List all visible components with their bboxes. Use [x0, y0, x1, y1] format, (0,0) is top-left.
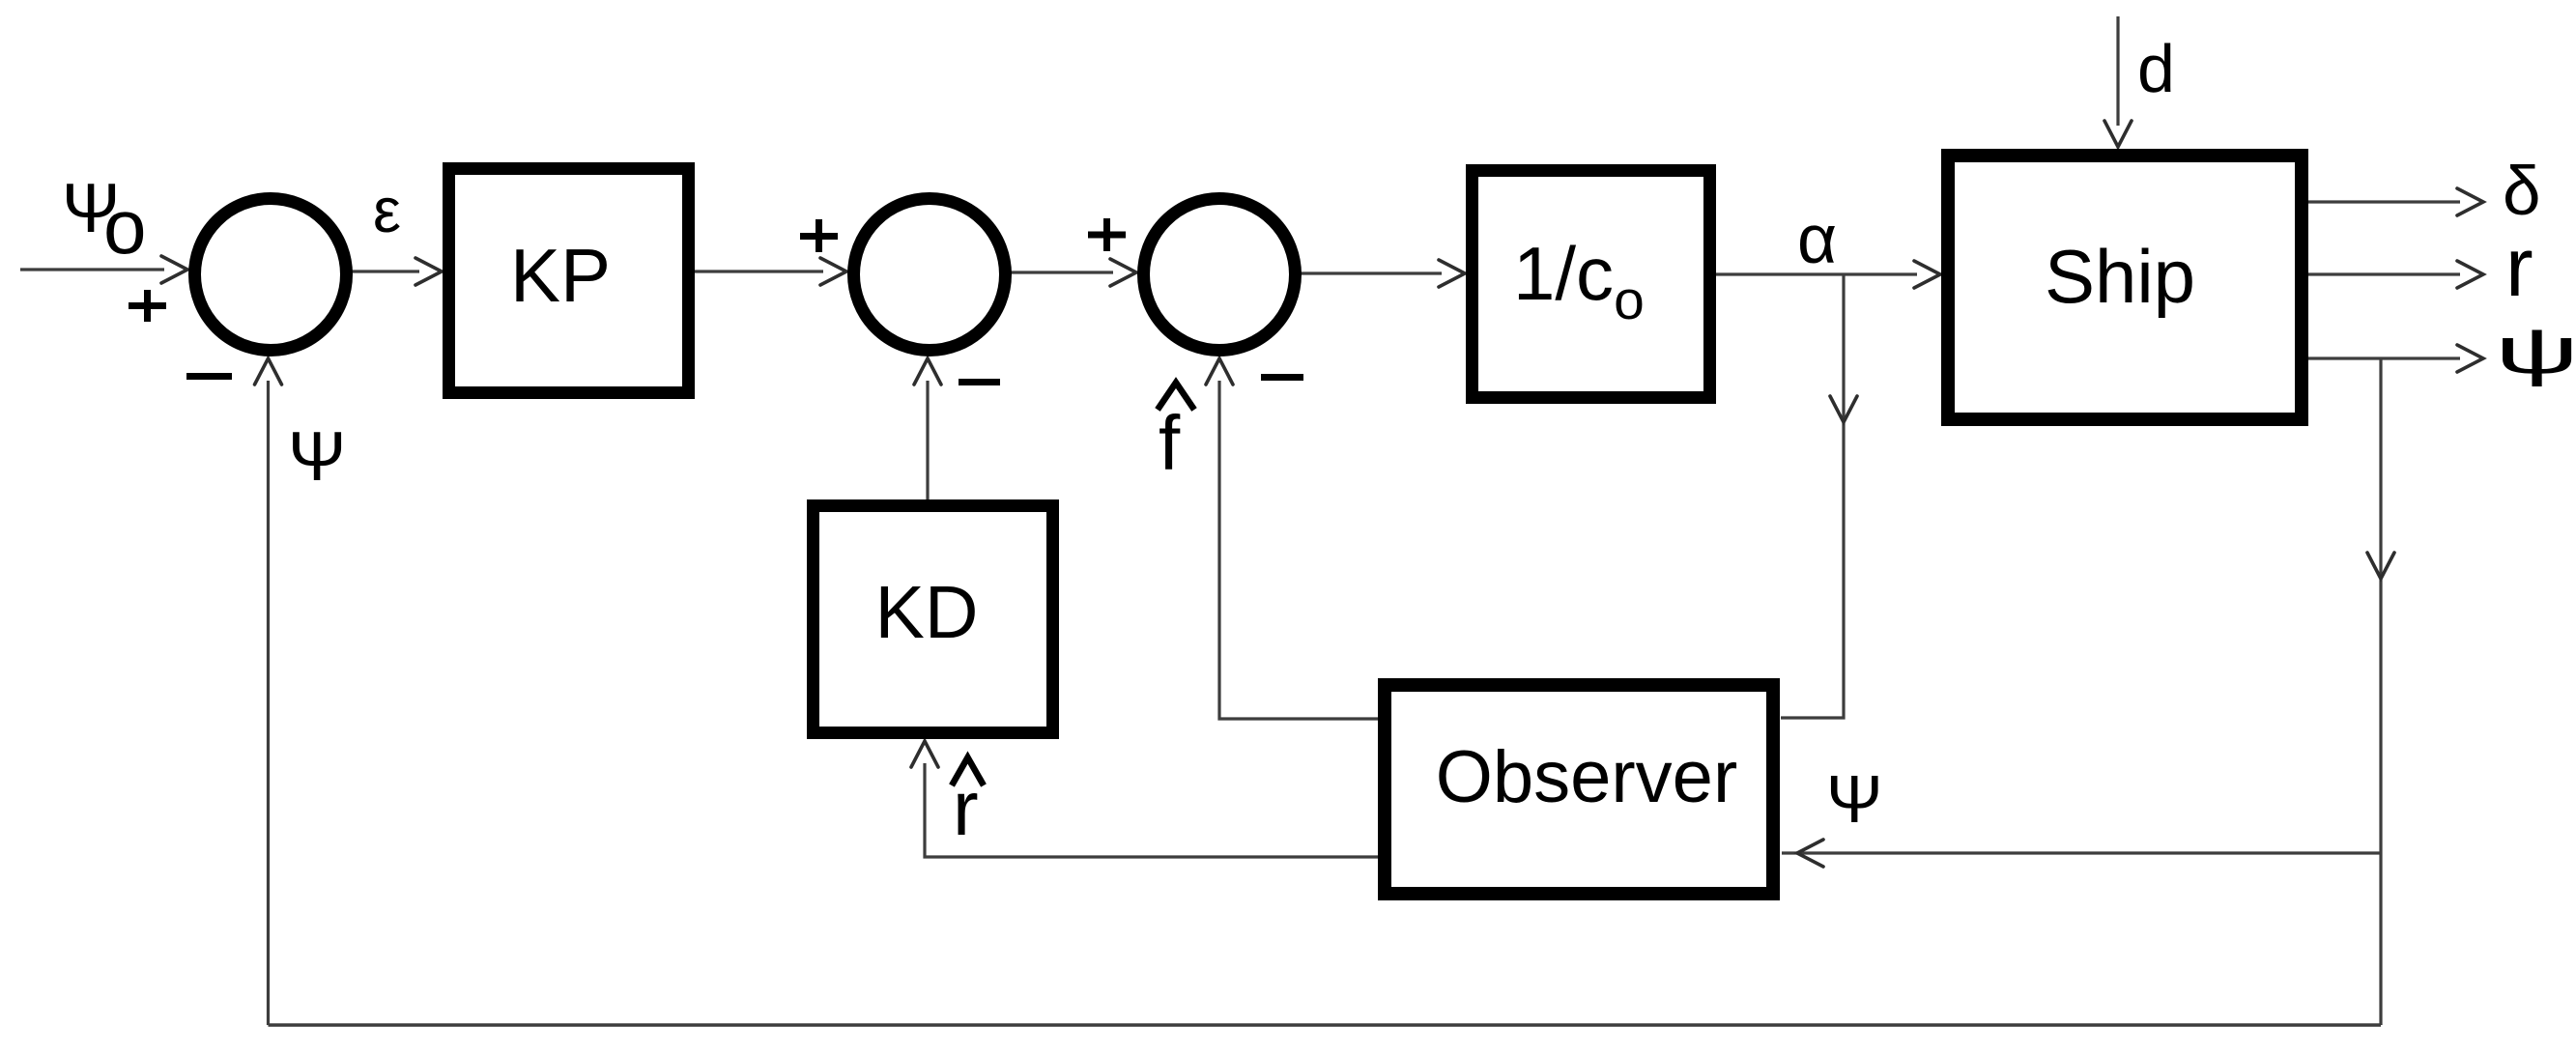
svg-text:α: α: [1797, 202, 1837, 278]
svg-text:Ψ: Ψ: [288, 418, 346, 496]
svg-text:o: o: [103, 184, 147, 270]
svg-text:KP: KP: [510, 233, 611, 318]
svg-text:r: r: [2505, 221, 2533, 314]
svg-text:KD: KD: [875, 571, 979, 654]
svg-text:ε: ε: [373, 175, 401, 245]
svg-text:Observer: Observer: [1436, 736, 1738, 818]
svg-text:Ψ: Ψ: [1826, 761, 1882, 837]
svg-text:ψ: ψ: [2495, 313, 2576, 386]
svg-text:Ship: Ship: [2045, 234, 2195, 319]
svg-text:d: d: [2137, 31, 2175, 106]
svg-text:δ: δ: [2503, 154, 2541, 230]
svg-text:f: f: [1159, 400, 1181, 486]
svg-text:r: r: [953, 765, 979, 851]
